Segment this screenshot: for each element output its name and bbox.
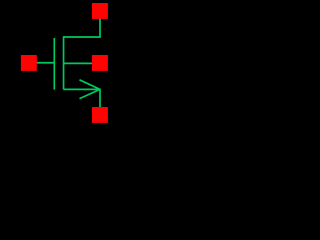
wire drain (channel top to top-right pin) xyxy=(64,18,100,37)
wire gate (left pin to gate bar) xyxy=(36,62,55,64)
gate bar xyxy=(53,38,55,90)
pin pad top-right (drain) xyxy=(92,3,108,19)
arrow barb lower xyxy=(80,89,101,98)
background xyxy=(0,0,128,128)
schematic: 4-terminal NMOS transistor with pin pads xyxy=(0,0,128,128)
wire source (channel bottom to bottom-right pin) xyxy=(64,89,100,108)
wire bulk (channel mid to middle-right pin) xyxy=(64,62,93,64)
pin pad middle-right (bulk) xyxy=(92,55,108,71)
pin pad left (gate) xyxy=(21,55,37,71)
arrow barb upper xyxy=(80,80,101,90)
pin pad bottom-right (source) xyxy=(92,107,108,123)
channel bar xyxy=(63,36,65,89)
